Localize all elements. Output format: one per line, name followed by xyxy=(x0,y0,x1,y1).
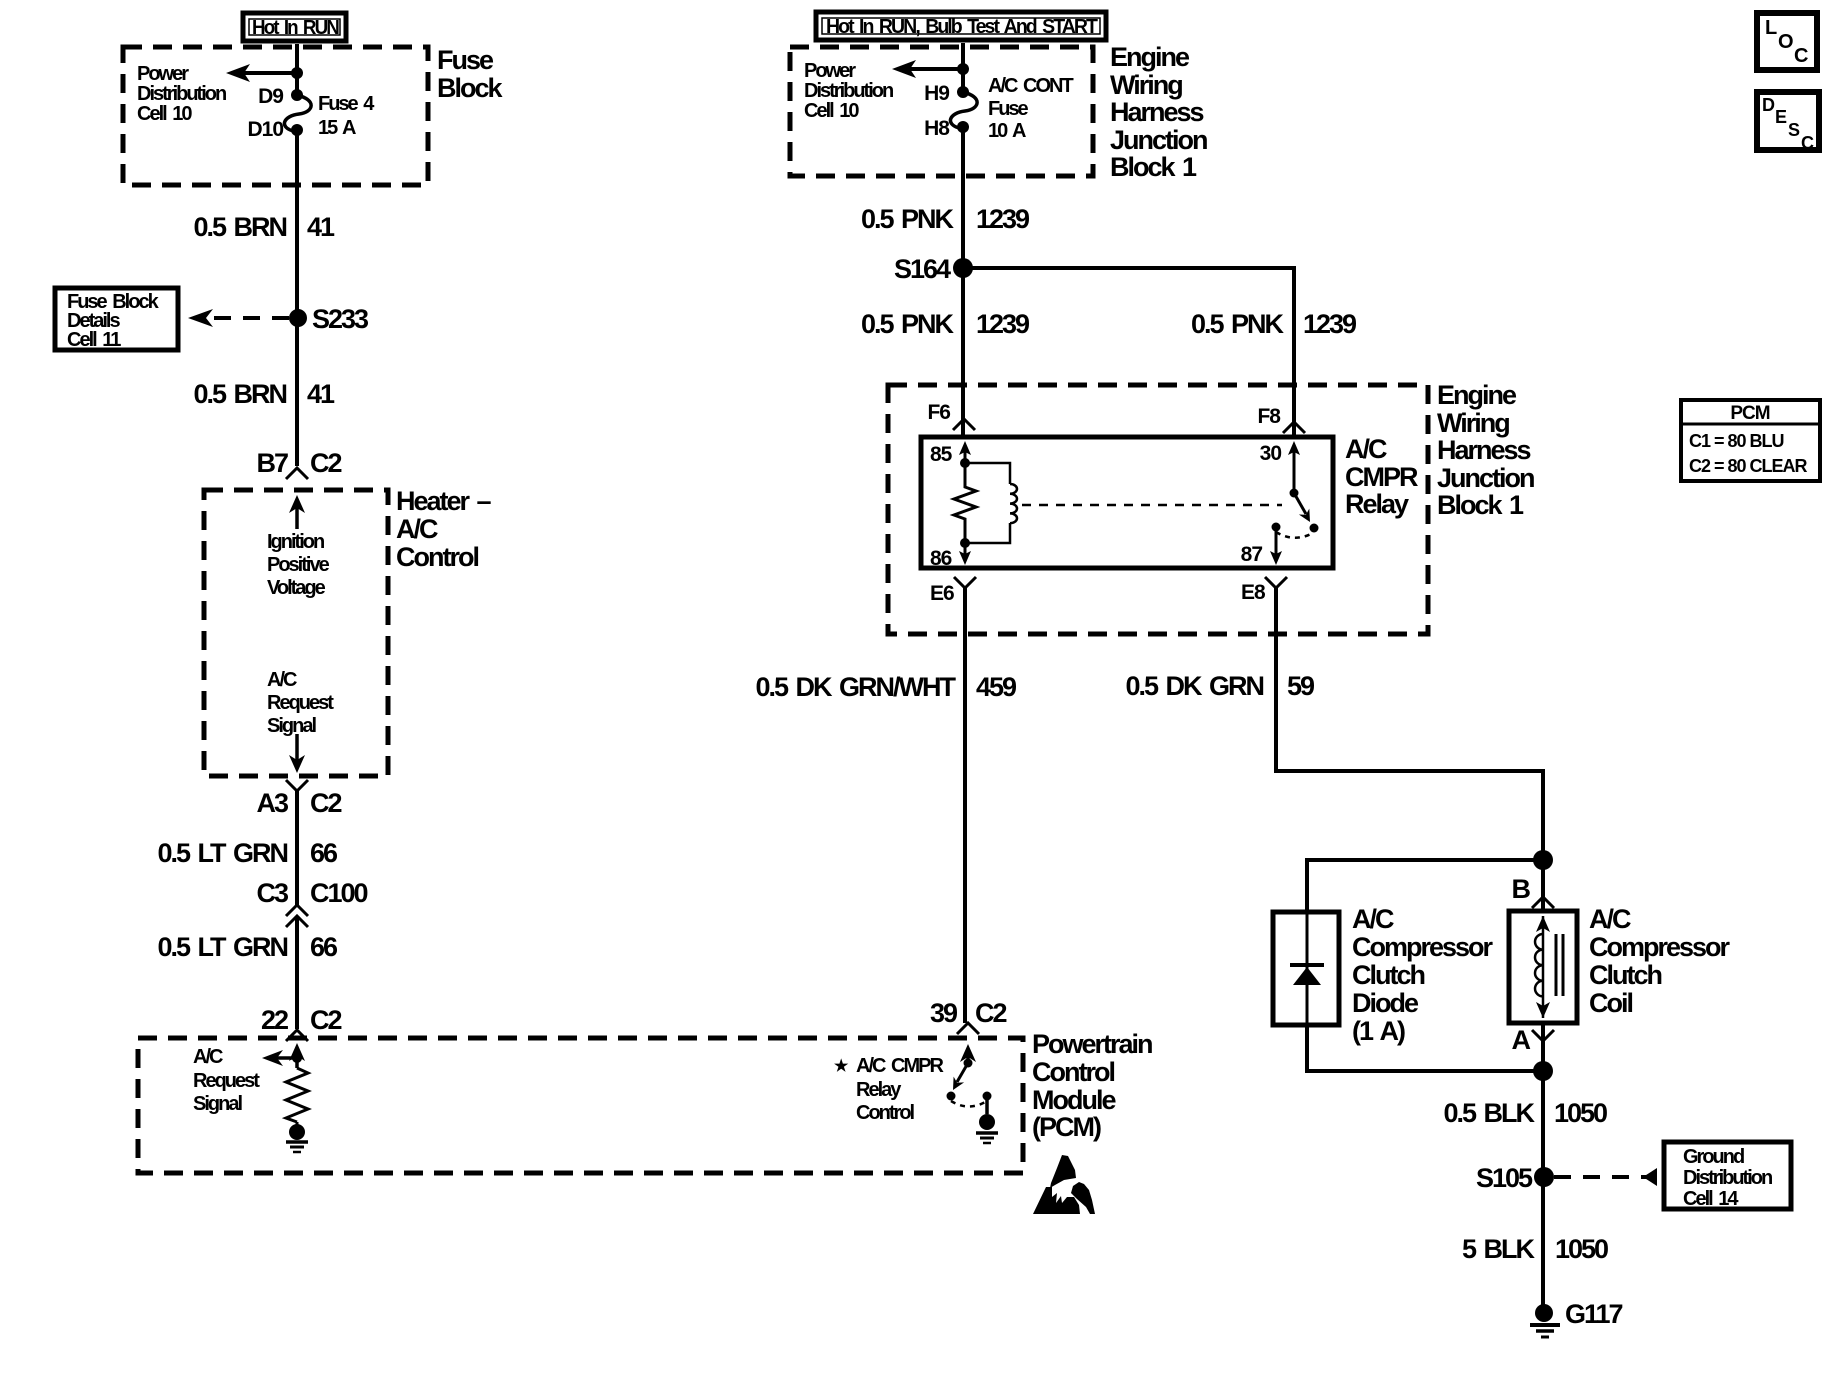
relay pin 86 xyxy=(930,538,971,570)
svg-text:0.5 BRN: 0.5 BRN xyxy=(193,212,286,242)
wire 41 (S233 to heater control) xyxy=(295,318,299,466)
ground (PCM switch) xyxy=(976,1096,998,1143)
connector B xyxy=(1512,860,1555,911)
svg-text:1239: 1239 xyxy=(976,204,1030,234)
svg-text:59: 59 xyxy=(1287,671,1315,701)
svg-text:1239: 1239 xyxy=(976,309,1030,339)
relay switch arm xyxy=(1276,493,1319,538)
svg-text:S164: S164 xyxy=(894,254,951,284)
A/C compressor clutch diode box xyxy=(1273,912,1339,1025)
heater box ignition positive voltage input arrow xyxy=(267,495,330,599)
svg-text:C100: C100 xyxy=(310,878,368,908)
text Power Distribution Cell 10 (fuse block) xyxy=(137,63,226,125)
svg-text:Power: Power xyxy=(804,60,856,82)
svg-text:0.5 PNK: 0.5 PNK xyxy=(861,204,955,234)
svg-text:C2 = 80 CLEAR: C2 = 80 CLEAR xyxy=(1689,456,1808,476)
node B junction xyxy=(1533,850,1553,870)
label Engine Wiring Harness Junction Block 1 (top) xyxy=(1110,42,1207,182)
engine junction block 1 dashed box (top) xyxy=(790,47,1093,176)
svg-text:Relay: Relay xyxy=(1345,489,1409,519)
wire: hot feed into fuse block xyxy=(295,44,299,95)
svg-text:459: 459 xyxy=(976,672,1017,702)
svg-text:0.5 BRN: 0.5 BRN xyxy=(193,379,286,409)
svg-text:Module: Module xyxy=(1032,1085,1116,1115)
node S105 xyxy=(1476,1163,1554,1193)
wire from diode branch (bottom) xyxy=(1307,1025,1543,1071)
dashed reference arrow to Ground Distribution xyxy=(1554,1168,1657,1186)
svg-text:B7: B7 xyxy=(256,448,287,478)
relay pin 85 xyxy=(930,441,971,468)
connector A3 C2 xyxy=(256,780,341,818)
svg-text:22: 22 xyxy=(261,1005,288,1035)
wire 1239 (S164 down) xyxy=(961,268,965,385)
label 0.5 PNK 1239 (right branch) xyxy=(1191,309,1357,339)
label A/C Compressor Clutch Coil xyxy=(1589,904,1731,1018)
wire 1050 (A to S105) xyxy=(1541,1071,1545,1177)
wire 66 (C100 to PCM) xyxy=(295,916,299,1029)
svg-text:Fuse: Fuse xyxy=(437,45,494,75)
svg-text:C2: C2 xyxy=(975,998,1006,1028)
connector F8 xyxy=(1257,385,1305,437)
svg-text:0.5 PNK: 0.5 PNK xyxy=(861,309,955,339)
svg-text:Control: Control xyxy=(396,542,478,572)
svg-text:★: ★ xyxy=(834,1058,849,1075)
svg-text:A/C: A/C xyxy=(396,514,438,544)
svg-text:5 BLK: 5 BLK xyxy=(1462,1234,1536,1264)
svg-text:H9: H9 xyxy=(924,82,949,105)
text A/C Request Signal (PCM) xyxy=(193,1046,260,1115)
label 0.5 PNK 1239 (left branch) xyxy=(861,309,1030,339)
PCM input arrow + A/C request signal tap xyxy=(262,1043,305,1068)
svg-text:A/C: A/C xyxy=(1345,434,1387,464)
wire 66 (heater to C100) xyxy=(295,791,299,906)
svg-text:Clutch: Clutch xyxy=(1352,960,1425,990)
svg-text:Engine: Engine xyxy=(1437,380,1517,410)
engine junction block 1 dashed box (relay) xyxy=(888,385,1428,634)
wire 59 (E8 to clutch B) xyxy=(1276,634,1543,860)
diode symbol xyxy=(1290,912,1324,1025)
svg-text:C2: C2 xyxy=(310,1005,341,1035)
svg-text:C: C xyxy=(1794,45,1808,67)
svg-text:Ignition: Ignition xyxy=(267,531,324,553)
svg-text:(1 A): (1 A) xyxy=(1352,1016,1405,1046)
wire 41 (fuse block to S233) xyxy=(295,130,299,318)
svg-text:A/C: A/C xyxy=(1589,904,1631,934)
svg-text:CMPR: CMPR xyxy=(1345,462,1418,492)
label 0.5 LT GRN 66 (second) xyxy=(157,932,338,962)
PCM relay control driver switch xyxy=(947,1044,992,1107)
ESD warning symbol xyxy=(1033,1155,1095,1214)
wire 459 (E6 to PCM 39) xyxy=(963,634,967,1023)
svg-text:H8: H8 xyxy=(924,117,950,140)
svg-text:D: D xyxy=(1762,95,1775,115)
svg-text:Cell 10: Cell 10 xyxy=(137,103,192,125)
svg-text:B: B xyxy=(1512,874,1531,904)
label Heater A/C Control xyxy=(396,486,492,572)
DESC tab box xyxy=(1757,92,1819,153)
svg-text:Distribution: Distribution xyxy=(1683,1167,1772,1189)
wire 1239 (fuse to S164) xyxy=(961,127,965,268)
clutch coil winding symbol xyxy=(1535,916,1563,1018)
svg-text:D9: D9 xyxy=(258,85,283,108)
svg-text:Diode: Diode xyxy=(1352,988,1419,1018)
relay pin 87 xyxy=(1241,523,1282,567)
connector C3 C100 xyxy=(256,878,367,927)
connector E8 xyxy=(1241,577,1287,634)
svg-text:Signal: Signal xyxy=(193,1093,242,1115)
svg-text:A/C: A/C xyxy=(267,669,297,691)
label 5 BLK 1050 xyxy=(1462,1234,1608,1264)
fuse A/C CONT 10 A (H9-H8) xyxy=(924,75,1073,142)
svg-text:F8: F8 xyxy=(1257,405,1281,428)
svg-text:G117: G117 xyxy=(1565,1299,1623,1329)
svg-text:1050: 1050 xyxy=(1555,1234,1608,1264)
svg-text:10 A: 10 A xyxy=(988,120,1026,142)
A/C compressor clutch coil box xyxy=(1509,911,1577,1023)
svg-text:Powertrain: Powertrain xyxy=(1032,1029,1152,1059)
label A/C CMPR Relay xyxy=(1345,434,1418,519)
label A/C Compressor Clutch Diode (1 A) xyxy=(1352,904,1494,1046)
connector 22 C2 xyxy=(261,1005,342,1041)
ground (PCM left internal) xyxy=(286,1122,308,1152)
svg-text:A/C CONT: A/C CONT xyxy=(988,75,1073,97)
svg-text:0.5 DK GRN/WHT: 0.5 DK GRN/WHT xyxy=(755,672,956,702)
dashed reference arrow to Fuse Block Details xyxy=(188,309,289,327)
svg-text:Request: Request xyxy=(193,1070,260,1092)
svg-text:1239: 1239 xyxy=(1303,309,1357,339)
svg-text:A3: A3 xyxy=(256,788,288,818)
svg-text:Distribution: Distribution xyxy=(137,83,226,105)
svg-text:A/C CMPR: A/C CMPR xyxy=(856,1055,944,1077)
node S164 xyxy=(894,254,973,284)
svg-text:87: 87 xyxy=(1241,543,1263,566)
svg-text:Engine: Engine xyxy=(1110,42,1190,72)
power label box "Hot In RUN, Bulb Test And START" xyxy=(816,12,1106,40)
svg-text:Harness: Harness xyxy=(1437,435,1531,465)
relay dashed actuation line xyxy=(1022,504,1282,507)
label 0.5 LT GRN 66 xyxy=(157,838,338,868)
svg-text:0.5 BLK: 0.5 BLK xyxy=(1443,1098,1535,1128)
node A junction xyxy=(1533,1061,1553,1081)
svg-text:41: 41 xyxy=(307,379,335,409)
svg-text:C3: C3 xyxy=(256,878,288,908)
svg-text:S105: S105 xyxy=(1476,1163,1533,1193)
power label box "Hot In RUN" xyxy=(243,13,346,41)
relay coil resistor branch xyxy=(954,463,976,543)
svg-text:Request: Request xyxy=(267,692,334,714)
svg-text:0.5 LT GRN: 0.5 LT GRN xyxy=(157,838,287,868)
svg-text:30: 30 xyxy=(1260,442,1282,465)
svg-text:Fuse: Fuse xyxy=(988,98,1029,120)
resistor (A/C request pull-up) xyxy=(286,1068,308,1122)
svg-text:S233: S233 xyxy=(312,304,369,334)
connector F6 xyxy=(927,385,975,437)
heater box A/C request signal output arrow xyxy=(267,669,334,773)
svg-text:E: E xyxy=(1775,107,1787,127)
svg-text:Clutch: Clutch xyxy=(1589,960,1662,990)
label 0.5 DK GRN 59 xyxy=(1125,671,1315,701)
svg-text:Cell 14: Cell 14 xyxy=(1683,1188,1739,1210)
svg-text:0.5 PNK: 0.5 PNK xyxy=(1191,309,1285,339)
svg-text:66: 66 xyxy=(310,932,338,962)
svg-text:Compressor: Compressor xyxy=(1589,932,1731,962)
svg-text:Cell 11: Cell 11 xyxy=(67,329,121,351)
svg-text:0.5 LT GRN: 0.5 LT GRN xyxy=(157,932,287,962)
svg-text:A/C: A/C xyxy=(193,1046,223,1068)
svg-text:Block 1: Block 1 xyxy=(1110,152,1197,182)
wire: power distribution tap with arrow xyxy=(226,64,303,82)
connector 39 C2 xyxy=(930,998,1007,1034)
relay coil winding branch xyxy=(965,463,1017,543)
svg-text:C2: C2 xyxy=(310,788,341,818)
svg-text:Block: Block xyxy=(437,73,504,103)
svg-text:Coil: Coil xyxy=(1589,988,1632,1018)
svg-text:Junction: Junction xyxy=(1437,463,1534,493)
svg-text:66: 66 xyxy=(310,838,338,868)
svg-text:Signal: Signal xyxy=(267,715,316,737)
label 0.5 BRN 41 xyxy=(193,212,335,242)
wire 1050 (S105 to G117) xyxy=(1541,1177,1545,1306)
svg-text:Harness: Harness xyxy=(1110,97,1204,127)
svg-text:E8: E8 xyxy=(1241,581,1266,604)
reference box Ground Distribution Cell 14 xyxy=(1664,1142,1791,1210)
svg-text:85: 85 xyxy=(930,443,953,466)
connector A xyxy=(1512,1023,1555,1071)
svg-text:Heater –: Heater – xyxy=(396,486,492,516)
svg-text:Fuse 4: Fuse 4 xyxy=(318,93,375,115)
svg-text:0.5 DK GRN: 0.5 DK GRN xyxy=(1125,671,1263,701)
node S233 xyxy=(289,304,369,334)
svg-text:A: A xyxy=(1512,1025,1531,1055)
PCM connector legend box xyxy=(1681,400,1820,481)
svg-text:Positive: Positive xyxy=(267,554,330,576)
svg-text:Power: Power xyxy=(137,63,189,85)
label 0.5 DK GRN/WHT 459 xyxy=(755,672,1017,702)
svg-text:S: S xyxy=(1788,120,1800,140)
svg-text:Hot In RUN, Bulb Test And STAR: Hot In RUN, Bulb Test And START xyxy=(826,16,1098,38)
svg-text:Relay: Relay xyxy=(856,1079,902,1101)
svg-text:1050: 1050 xyxy=(1554,1098,1607,1128)
svg-text:86: 86 xyxy=(930,547,952,570)
svg-text:39: 39 xyxy=(930,998,958,1028)
svg-text:Cell 10: Cell 10 xyxy=(804,100,859,122)
LOC tab box xyxy=(1757,13,1817,70)
text Power Distribution Cell 10 (engine junction) xyxy=(804,60,893,122)
svg-text:Hot In RUN: Hot In RUN xyxy=(252,17,339,39)
svg-text:D10: D10 xyxy=(247,118,283,141)
PCM dashed box xyxy=(138,1038,1023,1173)
svg-text:F6: F6 xyxy=(927,401,950,424)
svg-text:Wiring: Wiring xyxy=(1110,70,1182,100)
svg-text:Wiring: Wiring xyxy=(1437,408,1509,438)
svg-text:Ground: Ground xyxy=(1683,1146,1744,1168)
connector B7 C2 xyxy=(256,448,341,479)
svg-text:Distribution: Distribution xyxy=(804,80,893,102)
heater A/C control dashed box xyxy=(204,490,388,776)
label 0.5 BRN 41 (second) xyxy=(193,379,335,409)
label Engine Wiring Harness Junction Block 1 (relay) xyxy=(1437,380,1534,520)
svg-text:C2: C2 xyxy=(310,448,341,478)
label 0.5 BLK 1050 xyxy=(1443,1098,1607,1128)
svg-text:C1 = 80 BLU: C1 = 80 BLU xyxy=(1689,431,1784,451)
relay pin 30 xyxy=(1260,441,1300,498)
label Powertrain Control Module (PCM) xyxy=(1032,1029,1152,1142)
svg-text:Voltage: Voltage xyxy=(267,577,326,599)
connector E6 xyxy=(930,577,976,634)
label 0.5 PNK 1239 xyxy=(861,204,1030,234)
svg-text:15 A: 15 A xyxy=(318,117,356,139)
svg-text:Block 1: Block 1 xyxy=(1437,490,1524,520)
svg-text:(PCM): (PCM) xyxy=(1032,1112,1101,1142)
ground G117 xyxy=(1530,1299,1623,1337)
svg-text:E6: E6 xyxy=(930,582,954,605)
wire: hot feed into junction block xyxy=(961,43,965,92)
fuse Fuse 4 15 A (D9-D10) xyxy=(247,85,375,141)
wire: S164 branch to right xyxy=(963,268,1294,385)
svg-text:Compressor: Compressor xyxy=(1352,932,1494,962)
svg-text:Junction: Junction xyxy=(1110,125,1207,155)
reference box Fuse Block Details Cell 11 xyxy=(55,288,178,351)
svg-text:41: 41 xyxy=(307,212,335,242)
svg-text:Control: Control xyxy=(856,1102,915,1124)
svg-text:PCM: PCM xyxy=(1730,403,1769,424)
svg-text:Control: Control xyxy=(1032,1057,1114,1087)
text A/C CMPR Relay Control xyxy=(834,1055,944,1124)
svg-text:A/C: A/C xyxy=(1352,904,1394,934)
wire: power distribution tap arrow (middle) xyxy=(892,60,969,78)
label Fuse Block xyxy=(437,45,504,103)
fuse block dashed box xyxy=(123,47,428,185)
svg-text:L: L xyxy=(1765,17,1777,39)
wire to diode branch (top) xyxy=(1307,860,1543,912)
relay A/C CMPR Relay box xyxy=(921,437,1333,568)
svg-text:O: O xyxy=(1778,31,1793,53)
